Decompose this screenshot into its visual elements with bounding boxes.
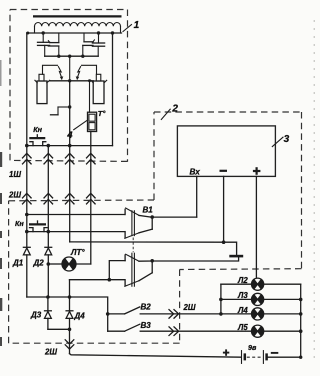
svg-text:9в: 9в — [248, 343, 257, 352]
wire H_a row — [27, 214, 125, 216]
label 3 — [272, 134, 289, 147]
svg-text:2: 2 — [171, 104, 178, 115]
wire center column — [69, 56, 71, 81]
lamp L2 — [221, 278, 301, 290]
wire H_b row — [27, 231, 125, 233]
wire D3 to D4 — [48, 328, 70, 330]
battery plus mark — [223, 349, 229, 355]
wire c3 mid — [69, 280, 71, 297]
svg-text:Д4: Д4 — [74, 312, 86, 321]
winding L1 — [35, 22, 121, 26]
diode D4 — [66, 297, 73, 329]
connector 1Sh pins — [23, 153, 96, 164]
svg-text:Л4: Л4 — [237, 306, 248, 315]
wire column c3 — [69, 146, 71, 242]
wire column c1 to connector — [26, 146, 28, 248]
terminal plus label — [253, 167, 261, 175]
wire left rail c1 — [26, 33, 28, 146]
wire coil right end — [120, 26, 122, 33]
lamp L3 — [221, 293, 301, 305]
capacitor C1 — [38, 33, 50, 56]
tester unit dashed box 2 — [9, 112, 302, 343]
electronic block box 3 — [177, 126, 275, 176]
svg-text:Д2: Д2 — [33, 259, 45, 268]
svg-text:Т°: Т° — [98, 109, 107, 118]
connector 2Sh bottom pins — [65, 340, 74, 349]
wire V1 output to Vx — [152, 216, 197, 218]
svg-text:Л5: Л5 — [237, 323, 248, 332]
spark gap arrow left — [58, 67, 63, 81]
svg-text:1: 1 — [134, 20, 140, 31]
wire battery to bus — [268, 356, 301, 358]
spark gap arrow right — [76, 67, 81, 81]
capacitor C2 — [92, 33, 104, 56]
svg-text:2Ш: 2Ш — [183, 303, 196, 312]
svg-text:4: 4 — [66, 130, 73, 141]
label 4 — [66, 121, 87, 141]
terminal minus label — [220, 170, 228, 172]
connector 2Sh right pins — [169, 310, 179, 336]
trimmer capacitor right — [83, 33, 95, 56]
wire c3 bottom — [69, 329, 71, 353]
svg-text:В2: В2 — [141, 303, 152, 312]
wire Vx lead — [196, 176, 198, 217]
svg-text:Л2: Л2 — [237, 276, 248, 285]
battery minus mark — [271, 352, 279, 354]
diode D3 — [45, 297, 52, 329]
wire c3 branch row — [70, 242, 237, 255]
lamp LT — [48, 257, 91, 271]
label 1 — [123, 20, 140, 31]
lamp L5 — [252, 325, 301, 337]
wire connector to ground — [152, 257, 238, 261]
scan edge artifacts — [313, 20, 315, 360]
svg-text:Д1: Д1 — [12, 259, 24, 268]
spark plug left — [35, 74, 50, 103]
svg-text:3: 3 — [284, 134, 290, 145]
switch V3 — [108, 314, 252, 331]
svg-text:1Ш: 1Ш — [9, 170, 21, 179]
svg-text:В1: В1 — [143, 205, 154, 214]
connector V1 — [125, 208, 152, 238]
wire coil left end — [34, 26, 36, 33]
svg-text:Вх: Вх — [190, 168, 201, 177]
wire Kn row — [27, 145, 113, 147]
transformer core — [33, 15, 122, 17]
svg-text:В3: В3 — [141, 321, 152, 330]
svg-text:Д3: Д3 — [30, 311, 42, 320]
spark gap bracket right — [82, 65, 97, 74]
wire plus lead — [255, 176, 257, 278]
diode D1 — [23, 247, 30, 255]
contact breaker — [51, 107, 70, 115]
spark gap bracket left — [43, 65, 58, 74]
svg-text:ЛТ°: ЛТ° — [70, 248, 85, 257]
mechanical link dashed — [132, 238, 134, 253]
lamp L4 — [252, 308, 301, 320]
node top bus junctions — [26, 32, 29, 35]
connector lower pair — [109, 253, 152, 286]
trimmer capacitor left — [48, 33, 59, 56]
svg-text:Кн: Кн — [33, 125, 42, 134]
wire right bus — [300, 284, 302, 357]
label 2 — [161, 104, 178, 120]
svg-text:Кн: Кн — [15, 219, 24, 228]
wire column c4 from thermal contact — [90, 132, 92, 265]
wire lamp feeder vertical — [220, 284, 222, 314]
battery 9v — [242, 351, 267, 364]
pushbutton Kn lower — [29, 221, 47, 232]
wire plug bus — [50, 80, 93, 82]
ground — [229, 255, 243, 258]
wire top bus — [27, 32, 122, 34]
wire c3 to lower connector — [70, 279, 125, 281]
wire c1 lower — [26, 255, 28, 297]
switch V2 — [108, 307, 252, 314]
wire minus lead — [223, 176, 225, 242]
thermal contact T, component 4 — [88, 81, 97, 132]
svg-text:Л3: Л3 — [237, 291, 248, 300]
svg-text:2Ш: 2Ш — [44, 348, 57, 357]
connector 2Sh pins — [23, 193, 96, 204]
magneto unit dashed box 1 — [10, 10, 128, 162]
wire c2 lower — [47, 255, 49, 297]
wire column c2 — [47, 146, 49, 248]
wire bottom bus — [70, 354, 241, 358]
wire mid bus — [45, 55, 98, 57]
wire c3 upper — [69, 81, 71, 146]
wire node row 297 — [27, 297, 108, 314]
spark plug right — [91, 74, 107, 103]
diode D2 — [45, 247, 52, 255]
svg-text:2Ш: 2Ш — [8, 191, 21, 200]
pushbutton Kn upper — [29, 135, 46, 146]
wire right rail — [112, 33, 114, 146]
